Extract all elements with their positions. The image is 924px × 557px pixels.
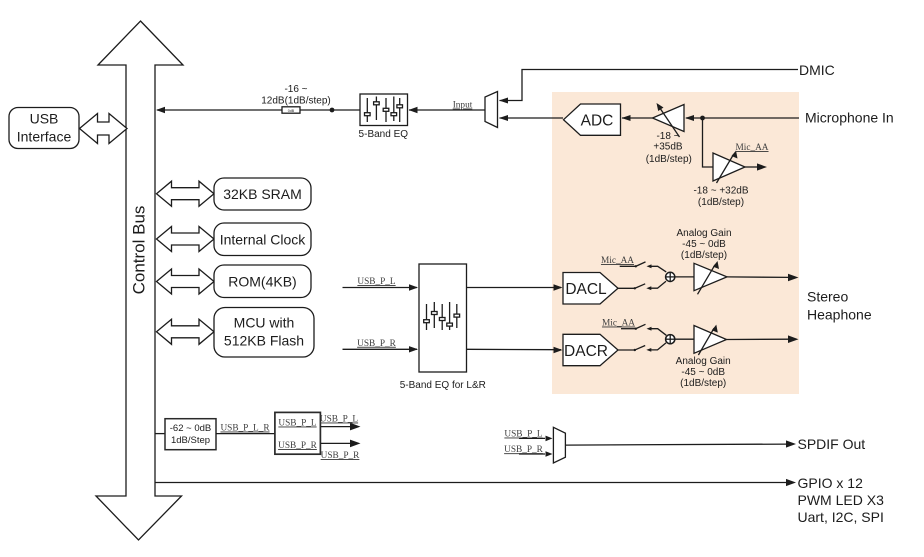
svg-text:-16 ~: -16 ~ bbox=[284, 84, 307, 95]
svg-text:DACR: DACR bbox=[564, 343, 608, 360]
svg-text:Mic_AA: Mic_AA bbox=[735, 143, 768, 153]
wire: summer to PGA bbox=[675, 276, 694, 278]
switch S2 (Mic_AA to DACL sum) bbox=[620, 265, 636, 267]
summer X2 bbox=[666, 335, 675, 344]
svg-text:(1dB/step): (1dB/step) bbox=[680, 378, 726, 389]
wire: EQ to DACL bbox=[467, 287, 561, 289]
wire: USB_P_R out bbox=[321, 442, 352, 444]
analog shaded region bbox=[552, 92, 799, 394]
svg-text:ROM(4KB): ROM(4KB) bbox=[228, 274, 296, 290]
wire: EQ to DACR bbox=[467, 348, 561, 350]
attenuator R2 -62 ~ 0dB box bbox=[165, 419, 216, 450]
svg-text:USB_P_L_R: USB_P_L_R bbox=[220, 424, 270, 434]
ROM block bbox=[214, 265, 311, 298]
wire: USB_P_L into EQ bbox=[343, 287, 418, 289]
junction dot on record path bbox=[330, 108, 335, 113]
switch S3 (DACR path) bbox=[618, 349, 635, 351]
wire: DMIC to mux bbox=[500, 70, 799, 101]
svg-text:+35dB: +35dB bbox=[653, 141, 683, 152]
svg-text:-18 ~ +32dB: -18 ~ +32dB bbox=[693, 186, 748, 197]
wire: GPIO bus output bbox=[155, 482, 788, 484]
MCU block bbox=[214, 308, 314, 358]
svg-text:USB_P_R: USB_P_R bbox=[278, 441, 318, 451]
wire: left headphone output bbox=[727, 276, 790, 279]
svg-text:USB_P_L: USB_P_L bbox=[320, 415, 359, 425]
svg-text:5-Band EQ for L&R: 5-Band EQ for L&R bbox=[400, 380, 486, 391]
headphone PGA A3 bbox=[694, 263, 727, 290]
wire: EQ output to control bus bbox=[157, 109, 360, 111]
mic PGA A1 (-18~+35dB) bbox=[653, 105, 685, 132]
DACL block bbox=[563, 273, 618, 305]
svg-text:Control Bus: Control Bus bbox=[129, 206, 148, 295]
wire: USB_P_R into EQ bbox=[343, 348, 418, 350]
svg-text:Interface: Interface bbox=[17, 129, 72, 145]
svg-text:(1dB/step): (1dB/step) bbox=[681, 250, 727, 261]
svg-text:Uart, I2C, SPI: Uart, I2C, SPI bbox=[798, 509, 884, 525]
svg-text:USB_P_L: USB_P_L bbox=[278, 419, 317, 429]
svg-text:USB_P_R: USB_P_R bbox=[357, 339, 397, 349]
DACR block bbox=[563, 334, 618, 365]
wire: right headphone output bbox=[727, 338, 791, 340]
bus double arrow to internal clock bbox=[157, 227, 215, 252]
svg-text:12dB(1dB/step): 12dB(1dB/step) bbox=[261, 96, 331, 107]
ADC block bbox=[564, 104, 621, 135]
Mic_AA bypass amp A2 bbox=[713, 153, 745, 181]
wire: summer to PGA bbox=[675, 338, 694, 340]
svg-text:(1dB/step): (1dB/step) bbox=[646, 154, 692, 165]
svg-text:-45 ~ 0dB: -45 ~ 0dB bbox=[682, 239, 726, 250]
switch S1 (DACL path) bbox=[618, 287, 635, 289]
wire: USB_P_R into SPDIF mux bbox=[519, 453, 545, 455]
svg-text:SPDIF Out: SPDIF Out bbox=[798, 436, 866, 452]
svg-text:USB_P_R: USB_P_R bbox=[321, 451, 361, 461]
wire: bus to playback attenuator bbox=[155, 433, 165, 435]
internal clock block bbox=[214, 223, 311, 256]
svg-text:Analog Gain: Analog Gain bbox=[676, 356, 731, 367]
svg-text:Heaphone: Heaphone bbox=[807, 307, 872, 323]
wire: SPDIF output bbox=[565, 444, 788, 445]
input mux M1 bbox=[485, 92, 498, 128]
wire: PGA1 to ADC bbox=[622, 117, 653, 119]
svg-text:Microphone In: Microphone In bbox=[805, 110, 894, 126]
svg-text:USB_P_L: USB_P_L bbox=[357, 277, 396, 287]
svg-text:32KB SRAM: 32KB SRAM bbox=[223, 186, 302, 202]
svg-text:0dB: 0dB bbox=[288, 109, 295, 113]
svg-text:Mic_AA: Mic_AA bbox=[601, 256, 634, 266]
attenuator R1 -16~12dB bbox=[282, 107, 300, 113]
svg-text:-62 ~ 0dB: -62 ~ 0dB bbox=[170, 423, 211, 434]
svg-text:DACL: DACL bbox=[565, 281, 607, 298]
headphone PGA A4 bbox=[694, 326, 727, 354]
node: mic input junction bbox=[700, 116, 705, 121]
bus double arrow to SRAM bbox=[157, 181, 215, 206]
SPDIF mux M2 bbox=[553, 427, 565, 463]
svg-text:GPIO x 12: GPIO x 12 bbox=[798, 475, 864, 491]
wire: mic node to PGA1 bbox=[686, 117, 703, 119]
wire: ADC to mux bbox=[500, 117, 564, 119]
svg-text:1dB/Step: 1dB/Step bbox=[171, 435, 210, 446]
wire: USB_P_L into SPDIF mux bbox=[519, 437, 545, 439]
wire: Mic_AA amp output bbox=[745, 166, 760, 168]
svg-text:Stereo: Stereo bbox=[807, 289, 848, 305]
svg-text:512KB Flash: 512KB Flash bbox=[224, 333, 304, 349]
bus double arrow to ROM bbox=[157, 269, 215, 294]
wire: attenuator to USB_P register bbox=[216, 433, 275, 435]
bus double arrow to USB interface bbox=[80, 114, 128, 144]
svg-text:PWM LED X3: PWM LED X3 bbox=[798, 492, 885, 508]
5-band EQ block (record) bbox=[360, 94, 408, 126]
svg-text:DMIC: DMIC bbox=[799, 62, 835, 78]
svg-text:-45 ~ 0dB: -45 ~ 0dB bbox=[681, 367, 725, 378]
svg-text:Input: Input bbox=[453, 101, 473, 111]
svg-text:(1dB/step): (1dB/step) bbox=[698, 197, 744, 208]
USB interface block U1 bbox=[9, 108, 79, 149]
svg-text:USB: USB bbox=[30, 111, 59, 127]
switch S4 (Mic_AA to DACR sum) bbox=[621, 328, 636, 330]
wire: USB_P_L out bbox=[321, 426, 352, 428]
summer X1 bbox=[666, 272, 675, 281]
svg-text:Internal Clock: Internal Clock bbox=[220, 232, 307, 248]
wire: input mux to 5-band EQ bbox=[409, 109, 485, 111]
svg-text:MCU with: MCU with bbox=[234, 315, 295, 331]
svg-text:5-Band EQ: 5-Band EQ bbox=[359, 129, 409, 140]
USB_P register block bbox=[275, 412, 321, 454]
wire: branch to Mic_AA amp bbox=[703, 118, 714, 167]
bus double arrow to MCU bbox=[157, 319, 215, 344]
svg-text:ADC: ADC bbox=[581, 113, 614, 130]
5-band EQ for L&R block bbox=[419, 264, 467, 372]
microphone input wire bbox=[703, 117, 800, 119]
32KB SRAM block bbox=[214, 178, 311, 210]
control bus vertical double arrow bbox=[96, 21, 183, 540]
svg-text:Analog Gain: Analog Gain bbox=[676, 228, 731, 239]
svg-text:Mic_AA: Mic_AA bbox=[602, 319, 635, 329]
